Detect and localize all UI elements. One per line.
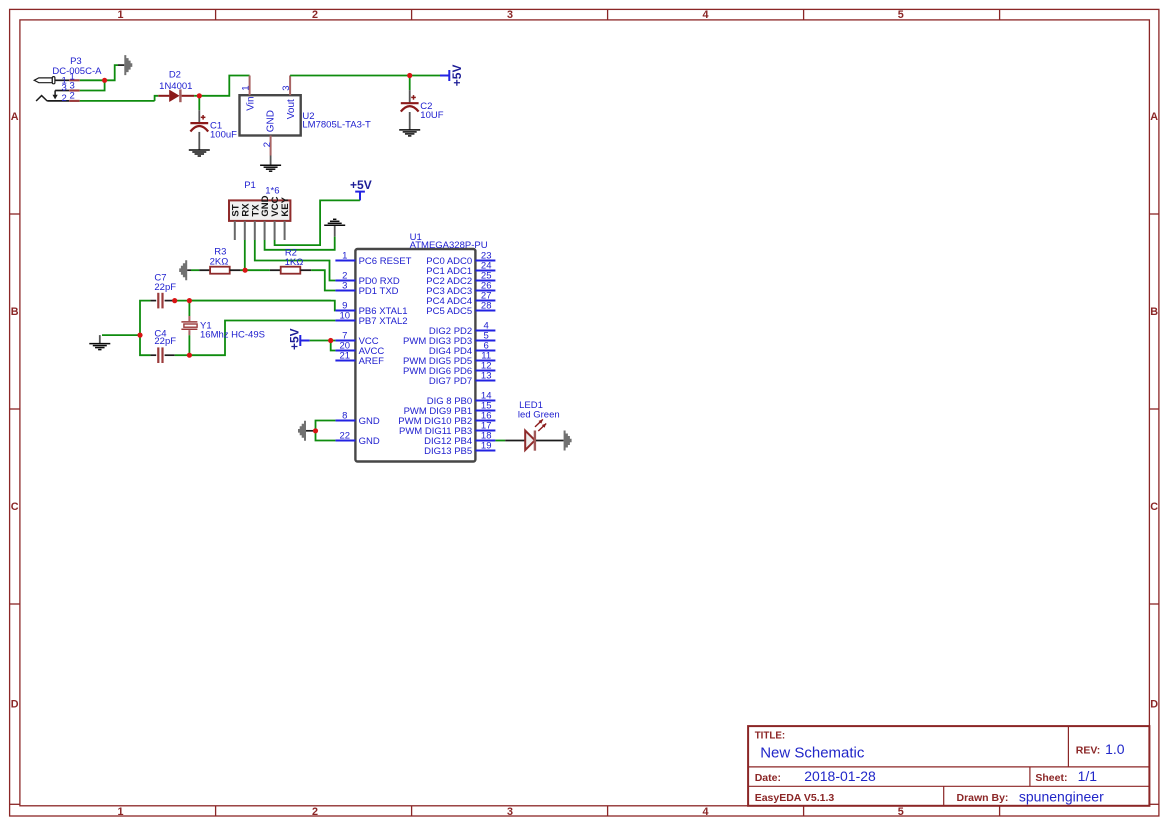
svg-text:1/1: 1/1 — [1078, 768, 1098, 784]
svg-text:A: A — [1150, 111, 1158, 123]
svg-text:8: 8 — [342, 411, 347, 422]
svg-text:1: 1 — [240, 86, 251, 91]
svg-text:3: 3 — [507, 9, 513, 21]
svg-text:2: 2 — [312, 9, 318, 21]
svg-text:2: 2 — [312, 806, 318, 818]
svg-text:DC-005C-A: DC-005C-A — [52, 66, 102, 77]
svg-text:19: 19 — [481, 441, 492, 452]
svg-text:KEY: KEY — [280, 196, 291, 216]
svg-text:EasyEDA V5.1.3: EasyEDA V5.1.3 — [755, 792, 835, 804]
svg-text:Sheet:: Sheet: — [1035, 772, 1067, 784]
svg-text:+5V: +5V — [288, 328, 302, 350]
svg-text:GND: GND — [359, 416, 380, 427]
svg-text:Vin: Vin — [245, 96, 256, 110]
svg-text:D2: D2 — [169, 70, 181, 81]
svg-text:GND: GND — [266, 110, 277, 132]
svg-text:PC5 ADC5: PC5 ADC5 — [426, 306, 472, 317]
svg-text:1N4001: 1N4001 — [159, 81, 192, 92]
svg-text:5: 5 — [898, 806, 904, 818]
svg-text:REV:: REV: — [1076, 745, 1101, 757]
svg-text:2KΩ: 2KΩ — [210, 257, 229, 268]
svg-text:16Mhz HC-49S: 16Mhz HC-49S — [200, 330, 265, 341]
svg-text:22: 22 — [340, 431, 351, 442]
svg-text:2: 2 — [69, 91, 74, 102]
svg-text:D: D — [11, 699, 19, 711]
svg-text:C: C — [1150, 501, 1158, 513]
svg-text:A: A — [11, 111, 19, 123]
svg-text:PD1 TXD: PD1 TXD — [359, 286, 399, 297]
svg-text:3: 3 — [507, 806, 513, 818]
svg-text:22pF: 22pF — [154, 282, 176, 293]
svg-text:2: 2 — [62, 93, 67, 104]
svg-text:4: 4 — [702, 806, 708, 818]
svg-text:1KΩ: 1KΩ — [285, 257, 304, 268]
svg-text:C: C — [11, 501, 19, 513]
svg-text:1: 1 — [342, 251, 347, 262]
svg-text:spunengineer: spunengineer — [1019, 789, 1104, 805]
svg-text:DIG13 PB5: DIG13 PB5 — [424, 446, 472, 457]
svg-text:1.0: 1.0 — [1105, 741, 1125, 757]
svg-text:22pF: 22pF — [154, 336, 176, 347]
svg-text:Drawn By:: Drawn By: — [957, 792, 1009, 804]
svg-text:13: 13 — [481, 371, 492, 382]
svg-text:10UF: 10UF — [420, 110, 443, 121]
svg-text:led Green: led Green — [518, 410, 560, 421]
svg-text:ATMEGA328P-PU: ATMEGA328P-PU — [410, 240, 488, 251]
svg-text:3: 3 — [281, 86, 292, 91]
svg-text:LM7805L-TA3-T: LM7805L-TA3-T — [302, 120, 371, 131]
svg-text:100uF: 100uF — [210, 130, 237, 141]
svg-text:+5V: +5V — [350, 178, 372, 192]
svg-text:P1: P1 — [244, 180, 256, 191]
svg-text:1: 1 — [117, 806, 123, 818]
svg-text:Date:: Date: — [755, 772, 781, 784]
svg-text:10: 10 — [340, 311, 351, 322]
svg-text:21: 21 — [340, 351, 351, 362]
svg-text:1: 1 — [117, 9, 123, 21]
svg-text:28: 28 — [481, 301, 492, 312]
svg-text:5: 5 — [898, 9, 904, 21]
svg-text:+5V: +5V — [450, 65, 464, 87]
svg-text:DIG7 PD7: DIG7 PD7 — [429, 376, 472, 387]
svg-text:AREF: AREF — [359, 356, 385, 367]
svg-text:TITLE:: TITLE: — [755, 731, 785, 742]
svg-text:New Schematic: New Schematic — [760, 745, 865, 762]
svg-text:PB7 XTAL2: PB7 XTAL2 — [359, 316, 408, 327]
svg-text:PC6 RESET: PC6 RESET — [359, 256, 412, 267]
svg-text:1*6: 1*6 — [265, 185, 279, 196]
svg-text:3: 3 — [62, 83, 67, 94]
svg-text:GND: GND — [359, 436, 380, 447]
svg-text:2018-01-28: 2018-01-28 — [804, 768, 876, 784]
svg-text:4: 4 — [702, 9, 708, 21]
svg-text:B: B — [11, 306, 19, 318]
svg-text:3: 3 — [342, 281, 347, 292]
svg-text:2: 2 — [262, 142, 273, 147]
svg-text:B: B — [1150, 306, 1158, 318]
svg-text:Vout: Vout — [286, 99, 297, 119]
svg-text:D: D — [1150, 699, 1158, 711]
